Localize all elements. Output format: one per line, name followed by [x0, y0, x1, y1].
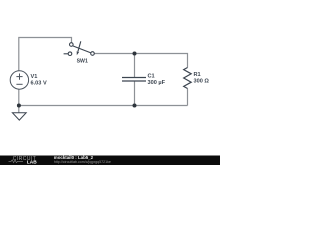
svg-text:R1: R1	[194, 72, 201, 78]
wire from V1 top up and across to SW1	[19, 38, 72, 72]
wire right rail below R1	[187, 89, 189, 106]
svg-text:300 µF: 300 µF	[148, 80, 166, 86]
wire from SW1 right terminal to right rail	[94, 54, 187, 68]
svg-text:6.03 V: 6.03 V	[31, 80, 47, 86]
svg-text:SW1: SW1	[77, 58, 88, 64]
junction dot at C1 bottom node	[133, 104, 137, 108]
svg-text:V1: V1	[31, 74, 38, 80]
junction dot at V1/ground node	[17, 104, 21, 108]
svg-text:http://circuitlab.com/c/jqgxgq: http://circuitlab.com/c/jqgxgq5721ke	[54, 160, 111, 164]
wire capacitor C1 bottom lead	[134, 82, 136, 106]
resistor R1	[184, 68, 192, 89]
CircuitLab watermark bar	[0, 156, 220, 166]
svg-text:LAB: LAB	[27, 159, 37, 165]
wire bottom rail	[19, 105, 188, 107]
svg-text:300 Ω: 300 Ω	[194, 79, 210, 85]
voltage source V1	[10, 71, 28, 89]
capacitor C1	[122, 78, 146, 82]
ground	[12, 113, 26, 120]
wire from V1 bottom down to ground node	[18, 89, 20, 113]
switch SW1	[64, 41, 95, 55]
junction dot at C1 top node	[133, 52, 137, 56]
svg-text:C1: C1	[148, 74, 155, 80]
wire capacitor C1 top lead	[134, 54, 136, 78]
